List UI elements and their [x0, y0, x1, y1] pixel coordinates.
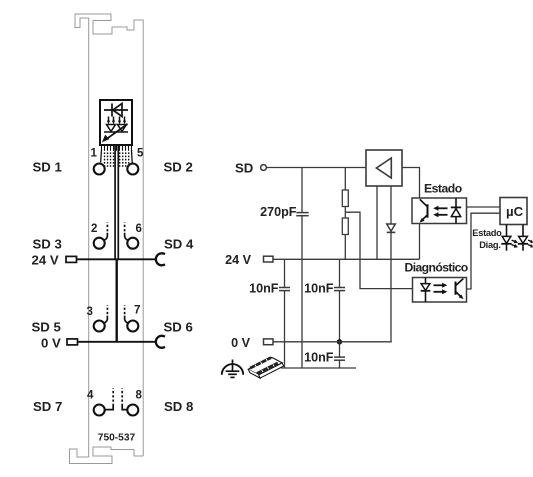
node SD terminal circle: [261, 165, 267, 171]
svg-text:SD: SD: [235, 160, 253, 175]
0V terminal square right: [264, 339, 274, 345]
svg-text:270pF: 270pF: [260, 205, 297, 219]
terminal 4: [94, 405, 105, 416]
diode D1: [387, 224, 396, 231]
terminal 7: [127, 321, 138, 332]
svg-text:0 V: 0 V: [41, 335, 61, 350]
driver triangle: [376, 158, 391, 178]
module outline 750-537 housing: [75, 14, 143, 457]
jumper link row 4: [105, 404, 113, 410]
wire earth line: [281, 367, 356, 369]
terminal 1: [94, 164, 105, 175]
svg-text:Estado: Estado: [424, 182, 462, 196]
wire Estado emitter to 24V rail: [419, 224, 421, 260]
svg-text:0 V: 0 V: [231, 336, 251, 350]
DIN rail icon: [248, 356, 283, 378]
svg-text:2: 2: [91, 223, 97, 235]
svg-text:Diag.: Diag.: [479, 240, 500, 250]
svg-text:24 V: 24 V: [225, 253, 252, 267]
data bus double line: [114, 145, 116, 259]
svg-text:8: 8: [136, 390, 143, 402]
resistor R1: [342, 190, 348, 207]
svg-text:SD 5: SD 5: [32, 320, 61, 335]
LED indicator Diag under uC: [518, 225, 533, 251]
terminal 3: [94, 321, 105, 332]
wire driver pin to 24V rail: [376, 186, 378, 259]
LED inside Diag opto: [425, 278, 427, 303]
svg-text:4: 4: [87, 390, 94, 402]
optocoupler U2 Diagnostico box: [413, 278, 467, 303]
LED inside Estado opto: [455, 198, 457, 224]
light arrows Estado: [437, 207, 448, 209]
terminal 2: [94, 238, 105, 249]
svg-text:SD 4: SD 4: [164, 237, 194, 252]
light arrows Diag: [434, 284, 445, 286]
svg-text:10nF: 10nF: [304, 351, 334, 365]
svg-text:10nF: 10nF: [249, 281, 279, 295]
jumper contacts row 3: [104, 316, 107, 323]
0V wire through module: [78, 341, 157, 343]
svg-text:7: 7: [134, 305, 140, 317]
terminal 5: [127, 164, 138, 175]
wire divider tap to diagnostico: [345, 212, 412, 288]
LED indicator box: [100, 100, 132, 145]
svg-text:Diagnóstico: Diagnóstico: [405, 261, 468, 275]
op-amp driver box: [366, 150, 402, 186]
phototransistor Q1: [427, 204, 429, 217]
dotted pin continuation: [104, 152, 130, 166]
terminal 8: [127, 405, 138, 416]
24V wire through module: [77, 258, 157, 260]
optocoupler U1 Estado box: [412, 198, 467, 224]
svg-text:SD 7: SD 7: [33, 399, 62, 414]
wire between resistors: [344, 207, 346, 219]
LED pair symbol bottom inside LED box: [104, 117, 128, 133]
svg-text:24 V: 24 V: [32, 252, 59, 267]
svg-text:SD 3: SD 3: [33, 237, 62, 252]
diode D top inside LED box: [104, 104, 128, 117]
pin ribbon hatch under LED box: [102, 145, 132, 151]
svg-text:10nF: 10nF: [304, 281, 334, 295]
capacitor C2 10nF left: [284, 259, 286, 287]
capacitor C3 10nF middle: [339, 259, 341, 287]
wire resistor branch: [344, 168, 346, 191]
wire R2 to 24V rail: [344, 235, 346, 260]
svg-text:1: 1: [91, 148, 98, 160]
24V open hook terminal: [156, 253, 165, 265]
wires Estado/Diag to uC: [467, 206, 501, 208]
wire 0V rail: [273, 341, 392, 343]
bus single line to 0V: [115, 259, 117, 342]
diagonal arrow over LEDs: [105, 124, 128, 140]
0V terminal square left module: [67, 339, 78, 345]
ground noiseless earth symbol: [222, 360, 243, 378]
0V open hook terminal: [156, 336, 165, 348]
svg-text:µC: µC: [506, 204, 524, 219]
svg-text:750-537: 750-537: [98, 433, 136, 444]
capacitor C4 10nF bottom: [339, 342, 341, 357]
wire driver pin through diode to 0V: [390, 186, 392, 342]
svg-text:6: 6: [136, 223, 142, 235]
svg-text:5: 5: [137, 148, 144, 160]
phototransistor Q2: [455, 282, 457, 295]
svg-text:SD 2: SD 2: [164, 160, 193, 175]
wire driver output to Estado opto: [402, 168, 420, 199]
jumper contacts row 2: [104, 233, 107, 240]
24V terminal square left module: [66, 256, 77, 262]
capacitor 270pF: [296, 212, 308, 214]
wire 24V rail: [273, 258, 420, 260]
svg-text:Estado: Estado: [472, 228, 502, 238]
node junction 0V: [337, 339, 342, 344]
24V terminal square right: [264, 256, 274, 262]
svg-text:SD 8: SD 8: [164, 399, 193, 414]
svg-text:SD 1: SD 1: [33, 160, 62, 175]
wire SD line: [266, 167, 366, 169]
svg-text:SD 6: SD 6: [164, 320, 193, 335]
LED indicator Estado under uC: [501, 225, 516, 251]
terminal 6: [127, 238, 138, 249]
microcontroller U3 uC box: [500, 198, 527, 225]
svg-text:3: 3: [87, 306, 93, 318]
wire 270pF branch vertical: [301, 168, 303, 213]
resistor R2: [342, 218, 348, 235]
